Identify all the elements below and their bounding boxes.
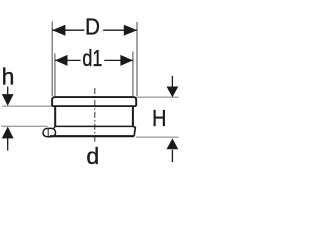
part seam line: [55, 125, 133, 127]
arrow H down: [167, 87, 179, 98]
part rim bottom edge: [52, 105, 136, 107]
extension line h top: [2, 105, 52, 107]
svg-text:D: D: [85, 14, 100, 40]
part right lower edge: [133, 126, 135, 135]
dimension H tail bottom: [171, 150, 173, 162]
part right wall: [132, 106, 134, 126]
dimension h tail bottom: [7, 138, 9, 151]
arrow d1 right: [120, 55, 132, 66]
svg-text:d: d: [86, 143, 99, 169]
arrow D left: [52, 25, 65, 36]
part rim outline: [52, 97, 136, 106]
part bottom edge: [50, 135, 135, 137]
extension line d1 right: [132, 52, 134, 96]
sealing lip connector: [53, 126, 55, 129]
part left wall: [54, 106, 56, 126]
extension line D left: [51, 22, 53, 96]
extension line H top: [136, 96, 179, 98]
extension line D right: [136, 22, 138, 96]
dimension line d1: [55, 59, 81, 61]
sealing lip pill: [43, 128, 56, 136]
dimension line D: [52, 29, 84, 31]
dimension h tail top: [7, 87, 9, 95]
svg-text:d1: d1: [82, 45, 102, 71]
arrow D right: [124, 25, 137, 36]
extension line h bottom: [1, 125, 47, 127]
centerline: [94, 88, 96, 144]
arrow h down: [2, 94, 14, 106]
arrow d1 left: [55, 55, 68, 66]
svg-text:H: H: [152, 105, 167, 131]
dimension H tail top: [171, 76, 173, 88]
svg-text:h: h: [2, 64, 15, 90]
extension line d1 left: [54, 54, 56, 96]
extension line H bottom: [136, 136, 179, 138]
arrow H up: [167, 138, 179, 149]
arrow h up: [2, 127, 14, 139]
sealing lip inner tick: [47, 129, 49, 137]
